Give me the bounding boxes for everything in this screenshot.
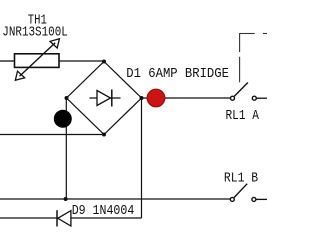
wire left stub to RL1 B contact [0,198,230,200]
thermistor TH1 [15,39,60,81]
svg-text:D1 6AMP BRIDGE: D1 6AMP BRIDGE [126,66,229,82]
wire bridge right vertex down [141,98,143,218]
svg-text:D9 1N4004: D9 1N4004 [72,203,135,219]
wire left stub to TH1 [0,60,14,62]
wire RL1 A contact to right edge [257,97,267,99]
wire bridge left vertex down to bottom net [65,98,67,199]
node junction on RL1 B wire [64,197,68,201]
node red blob marker [147,89,165,107]
node bridge bottom vertex [102,133,106,137]
svg-text:RL1 A: RL1 A [226,108,260,124]
svg-text:RL1 B: RL1 B [224,171,258,187]
node bridge right vertex [140,96,144,100]
wire left stub to bridge bottom vertex [0,134,104,136]
node bridge top vertex [102,60,106,64]
node black blob marker [54,110,72,128]
relay contact RL1 A [231,83,257,101]
wire TH1 to bridge top vertex [59,60,104,62]
node bridge left vertex [65,96,69,100]
relay contact RL1 B [230,184,256,202]
wire bridge right vertex to RL1 A contact [142,97,231,99]
svg-text:JNR13S100L: JNR13S100L [2,24,68,40]
wire bottom net through D9 [0,217,142,219]
diode D9 [57,210,71,226]
wire RL1 B contact to right edge [256,198,267,200]
bridge rectifier D1 [67,62,142,135]
relay RL1 dashed actuation line [239,33,267,82]
